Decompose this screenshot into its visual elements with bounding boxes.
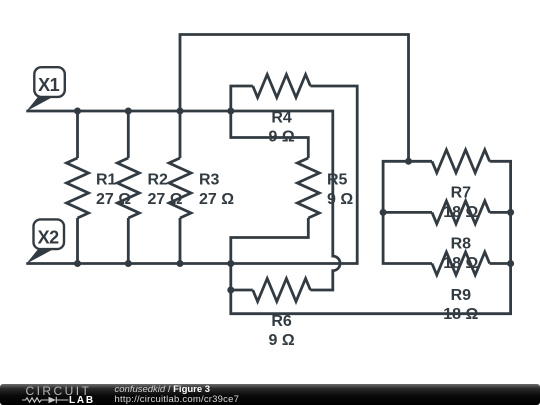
svg-text:9 Ω: 9 Ω <box>269 129 295 146</box>
svg-text:27 Ω: 27 Ω <box>148 191 183 208</box>
svg-text:R1: R1 <box>96 172 117 189</box>
svg-text:18 Ω: 18 Ω <box>443 255 478 272</box>
svg-text:R9: R9 <box>451 287 472 304</box>
svg-text:R7: R7 <box>451 185 472 202</box>
svg-text:9 Ω: 9 Ω <box>327 191 353 208</box>
svg-text:R8: R8 <box>451 236 472 253</box>
svg-text:X2: X2 <box>38 227 60 247</box>
svg-text:18 Ω: 18 Ω <box>443 306 478 323</box>
svg-text:R6: R6 <box>271 313 292 330</box>
svg-text:R3: R3 <box>199 172 220 189</box>
svg-text:27 Ω: 27 Ω <box>96 191 131 208</box>
svg-text:R5: R5 <box>327 172 348 189</box>
svg-text:R2: R2 <box>148 172 169 189</box>
svg-text:X1: X1 <box>38 75 60 95</box>
svg-text:9 Ω: 9 Ω <box>269 332 295 349</box>
svg-text:R4: R4 <box>271 109 292 126</box>
svg-text:27 Ω: 27 Ω <box>199 191 234 208</box>
svg-text:18 Ω: 18 Ω <box>443 204 478 221</box>
